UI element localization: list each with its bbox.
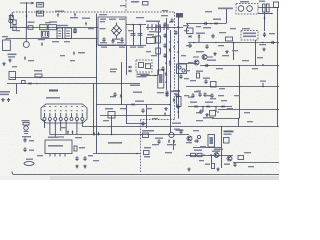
speckle t25: [190, 80, 196, 81]
text above right: [259, 1, 265, 2]
series res on wire: [35, 74, 42, 77]
channel dot h: [177, 51, 179, 53]
pin lead 5 down: [65, 121, 67, 135]
cap texts: [57, 25, 68, 26]
channel cap b: [163, 33, 166, 38]
text at 204,78: [203, 78, 210, 79]
speckle t40: [152, 144, 159, 145]
filter cap C805: [131, 34, 136, 36]
Q851 text mid: [214, 149, 223, 151]
channel res R804: [156, 26, 161, 32]
C815 cap: [204, 79, 207, 84]
secondary return wire y135: [90, 134, 189, 136]
frame cap text: [101, 47, 107, 48]
pin circle 5: [65, 118, 68, 121]
speckle t47: [2, 36, 8, 37]
out gnd b: [216, 168, 219, 171]
frame text c: [119, 19, 125, 20]
vertical x211 low: [211, 156, 213, 164]
pin circle 4: [59, 118, 62, 121]
frame text a2: [100, 21, 105, 22]
channel low cap b: [176, 93, 179, 98]
junction y86: [262, 86, 264, 88]
AC plug lead vertical: [5, 39, 7, 41]
speckle t67: [257, 57, 263, 58]
out wire y162: [233, 162, 279, 164]
corner box top right: [274, 2, 279, 8]
pin lead 1 down: [44, 121, 46, 129]
cap 113,95: [113, 92, 116, 97]
series cap on AC line: [40, 25, 48, 30]
row junction a: [203, 154, 205, 156]
speckle t39: [93, 160, 99, 161]
RC block right cap: [267, 4, 270, 12]
cap value text2: [138, 47, 144, 48]
cap C813: [165, 92, 168, 97]
sec text extra: [188, 97, 193, 98]
sec stub b: [215, 107, 217, 113]
sec row3 text: [196, 112, 202, 113]
pin circle 2: [48, 118, 51, 121]
filter cap C806 lead: [140, 25, 142, 46]
part text b: [155, 138, 163, 139]
bottom-left cap pair a: [23, 138, 26, 143]
stub x263: [262, 83, 264, 87]
speckle t38: [37, 155, 43, 156]
channel ext rail d low: [178, 64, 180, 119]
relay RY801 on wire: [9, 72, 16, 80]
C860 text: [108, 142, 122, 144]
D810 box: [108, 112, 115, 119]
paper noise: [0, 0, 279, 176]
speckle t54: [184, 30, 189, 31]
frame cap text2: [119, 47, 125, 48]
channel cap a: [163, 22, 166, 27]
frame cap a: [102, 37, 105, 42]
sub cluster gnd a: [75, 165, 78, 168]
switch channel rail c: [170, 30, 172, 90]
dashed boundary vertical at x126 up: [125, 0, 127, 12]
under Q text: [167, 144, 176, 145]
RC block right res: [263, 4, 266, 12]
res D852 b: [197, 153, 202, 156]
junction on return: [36, 83, 38, 85]
channel low diode: [173, 99, 175, 101]
fusible link box F801: [37, 3, 44, 8]
Q802 junction: [210, 23, 212, 25]
jumper text: [26, 159, 33, 160]
pin tick 5: [65, 113, 67, 117]
secondary stub y137: [55, 136, 64, 138]
jumper ellipse: [24, 162, 34, 166]
speckle t41: [165, 152, 172, 153]
AC neutral lead vertical: [10, 14, 12, 28]
degauss box text2: [243, 36, 256, 38]
y135 arrow b: [98, 132, 100, 136]
B+ line y127 to right: [82, 126, 279, 128]
speckle t31: [146, 108, 152, 109]
pin circle 6: [70, 118, 73, 121]
vertical x221 low: [221, 127, 223, 169]
IC851 text: [224, 131, 234, 133]
cap bank top wire: [126, 24, 146, 26]
diode on x121: [120, 95, 122, 97]
left long rail: [96, 40, 98, 154]
sec text r2: [190, 102, 197, 103]
diode row ticks: [148, 24, 168, 30]
speckle t14: [183, 25, 189, 26]
top right bus y23: [186, 23, 226, 25]
thermistor symbol: [74, 13, 76, 17]
pin tick 1: [44, 113, 46, 117]
series cap b on AC line: [41, 31, 49, 37]
switch channel rail a: [158, 22, 160, 75]
speckle t60: [162, 10, 168, 11]
filter cap C806: [138, 34, 143, 36]
F801 label blob: [38, 4, 43, 6]
channel mid dot f: [169, 64, 171, 66]
Q803 parts: [193, 56, 213, 58]
out text b: [224, 164, 230, 165]
varistor block: [13, 20, 16, 25]
R801 part: [74, 28, 76, 34]
speckle t23: [216, 68, 223, 69]
CN801 text: [0, 91, 10, 93]
junction d y42: [262, 42, 264, 44]
degauss box dashed: [241, 31, 258, 41]
sub board box: [45, 140, 72, 154]
speckle t28: [244, 112, 250, 113]
left drop from dashed: [11, 12, 13, 18]
degauss text: [82, 18, 90, 19]
channel tall rect low: [177, 97, 182, 107]
thermistor drop: [25, 28, 27, 42]
speckle t32: [152, 118, 158, 119]
speckle t20: [222, 55, 229, 56]
channel cap d: [163, 53, 166, 58]
pin circle 8: [81, 118, 84, 121]
part at 145,150 box: [144, 151, 150, 155]
X-capacitor C801: [57, 28, 63, 39]
snubber blob: [176, 13, 183, 18]
speckle t43: [200, 146, 206, 147]
frame text a: [100, 19, 106, 20]
R815 text: [130, 85, 140, 87]
heater cluster box: [23, 123, 29, 126]
right bus y42: [188, 42, 279, 44]
stub arrow: [32, 2, 35, 5]
text R817: [133, 92, 142, 93]
Q804 circle: [194, 60, 199, 65]
speckle t22: [252, 68, 258, 69]
bridge text: [112, 39, 120, 40]
X801 sub text: [46, 97, 60, 99]
Q852 text: [212, 151, 220, 152]
pin tick 6: [71, 113, 73, 117]
speckle t3: [64, 41, 70, 42]
speckle t18: [259, 44, 266, 45]
channel junction 3: [177, 41, 179, 43]
thermistor drop dot: [26, 27, 28, 29]
y135 junction a: [111, 134, 113, 136]
speckle t45: [248, 166, 254, 167]
B plus text: [171, 91, 180, 93]
junction c y42: [233, 42, 235, 44]
junction y86 x239: [239, 86, 241, 88]
thermistor text: [70, 17, 78, 18]
junction on y77: [39, 77, 41, 79]
out text a: [205, 164, 210, 165]
junction a y42: [193, 42, 195, 44]
speckle t65: [70, 60, 75, 61]
fuse F801 body: [28, 26, 33, 30]
speckle t16: [219, 32, 226, 33]
B plus wire: [179, 63, 196, 65]
box drop vertical: [187, 24, 189, 29]
channel low cap a: [165, 90, 168, 95]
channel ext rail c low: [170, 90, 172, 133]
sec extra diode: [189, 35, 191, 37]
page border bottom: [12, 172, 14, 175]
lower AC return y83: [7, 83, 140, 85]
dashed boundary vertical hot/cold: [174, 12, 176, 119]
speckle t56: [218, 45, 224, 46]
AC ground: [8, 59, 11, 62]
under Q arrow b: [173, 139, 175, 143]
pc out cap: [179, 74, 182, 79]
speckle t11: [161, 15, 168, 16]
out cap a: [233, 162, 236, 167]
part at 156,140: [157, 139, 160, 144]
vert x146 mid: [146, 105, 148, 129]
sec diode row wire y106: [188, 106, 232, 108]
speckle t17: [230, 28, 236, 29]
pin tick 3: [54, 113, 56, 117]
IC left rail: [126, 46, 128, 76]
heater text: [22, 120, 30, 121]
junction b y42: [215, 42, 217, 44]
IC feed diode b: [129, 70, 131, 72]
R820 text: [196, 71, 203, 72]
part text: [144, 147, 151, 148]
secondary rail x93.3: [93, 84, 95, 135]
circle small at 198,137: [197, 135, 200, 138]
pin lead 2 down: [49, 121, 51, 135]
channel dot i: [173, 57, 175, 59]
winding marks inside X801: [44, 106, 84, 108]
arrow at 165,112: [164, 112, 166, 116]
channel diode a: [169, 49, 171, 51]
AC100 text line2: [8, 56, 15, 57]
channel junction 4: [165, 62, 167, 64]
D809 diode: [132, 103, 134, 105]
speckle t9: [136, 17, 144, 18]
diode row text: [146, 21, 160, 23]
speckle t12: [151, 55, 157, 56]
rectifier frame: [98, 17, 126, 45]
AC line lower: [6, 38, 98, 40]
bridge D801 diamond: [112, 25, 122, 36]
text at 207,60: [207, 60, 216, 61]
part at 272,38: [270, 41, 275, 44]
photocoupler PC801 box: [177, 64, 187, 74]
gnd at 166,107: [164, 107, 167, 110]
startup res text: [147, 34, 154, 35]
filter cap C805 lead: [133, 25, 135, 46]
sub cluster text: [79, 147, 85, 148]
junction y118: [238, 118, 240, 120]
top edge marks text: [131, 1, 139, 3]
vertical x173 low: [173, 140, 175, 150]
D803 text: [213, 19, 221, 20]
C817 text: [203, 117, 214, 118]
sec junction row b: [215, 106, 217, 108]
speckle t42: [186, 142, 192, 143]
speckle t36: [60, 127, 66, 128]
cap at 143,110: [141, 108, 144, 113]
dashed boundary vertical lower: [140, 120, 142, 173]
sub texts right: [88, 155, 93, 156]
snubber cap: [170, 18, 173, 23]
cap at 211,37: [211, 34, 214, 39]
posistor symbol: [73, 51, 75, 55]
degauss box text1: [243, 33, 256, 35]
thermistor arrow: [41, 42, 43, 46]
junction circle Q at 171,134: [169, 132, 174, 137]
transformer X801 outline: [41, 104, 87, 123]
bottom-left cap texts b: [29, 150, 34, 151]
channel cap e: [174, 30, 177, 35]
label box right: [238, 156, 244, 160]
T801 winding b: [247, 6, 253, 12]
vert x121 mid: [121, 62, 123, 105]
speckle t37: [75, 137, 82, 138]
R801 body: [74, 29, 76, 33]
AC plug box: [3, 40, 11, 51]
switch channel rail b: [166, 18, 168, 90]
IC801 inner die: [139, 63, 144, 68]
pin lead 4 down: [60, 121, 62, 132]
bottom row wire y155: [186, 155, 233, 157]
D803 diode: [215, 22, 217, 24]
D815 text: [172, 123, 181, 124]
Q802 parts: [203, 22, 208, 25]
sub cluster gnd b: [83, 165, 86, 168]
X-capacitor C802: [65, 28, 72, 39]
lower mid bus y115: [100, 115, 171, 117]
degauss symbol: [57, 13, 59, 17]
IC801 inner label: [146, 64, 151, 69]
sec text D813: [205, 102, 213, 103]
speckle t34: [103, 120, 109, 121]
reg box: [208, 135, 215, 148]
junction y153: [136, 153, 138, 155]
wire y118 right: [212, 118, 239, 120]
Q text: [176, 130, 184, 131]
stub junction: [26, 2, 28, 4]
sec junction row a: [202, 106, 204, 108]
sec cluster ecap a: [198, 92, 201, 97]
sub cluster cap a: [75, 156, 78, 161]
xcap hatch b: [66, 31, 70, 36]
pin circle 7: [75, 118, 78, 121]
sec extra box: [187, 28, 194, 34]
cap bank bottom wire: [98, 45, 146, 47]
right bus y65: [200, 65, 279, 67]
line switch circle: [9, 19, 13, 23]
sub board inner text: [48, 145, 63, 147]
scan shadow strip bottom left lighter: [0, 176, 50, 180]
cluster text a: [193, 130, 199, 131]
speckle t48: [28, 60, 34, 61]
line filter LF801 box: [48, 25, 56, 30]
D805 diode: [198, 35, 200, 37]
channel diode b: [169, 61, 171, 63]
secondary bus y134: [50, 134, 90, 136]
Q852 parts a: [194, 139, 199, 142]
rc pair drop: [264, 12, 266, 31]
Q852 circle top: [187, 136, 192, 141]
row junction b: [210, 154, 212, 156]
small box on return: [22, 81, 26, 84]
wire stub top-left: [20, 3, 32, 27]
LF801 text: [49, 21, 57, 22]
T801 winding a: [238, 6, 244, 12]
channel mid dot d: [165, 34, 167, 36]
speckle t29: [184, 95, 189, 96]
text mid2: [110, 71, 116, 72]
D805 lead: [198, 38, 200, 43]
frame cap c: [120, 37, 123, 42]
IC under wire: [141, 75, 159, 77]
thermistor text: [38, 39, 45, 40]
D809 text: [135, 101, 144, 102]
channel dot l: [170, 85, 172, 87]
frame text d: [100, 28, 106, 29]
PS label box: [143, 133, 149, 138]
Q802 text: [203, 27, 211, 28]
AC 100V text: [8, 54, 17, 56]
speckle t27: [227, 108, 233, 109]
junction lower line: [10, 27, 12, 29]
part below text: [144, 156, 150, 157]
frame text b: [109, 19, 116, 20]
right tall vertical x277: [277, 8, 279, 127]
y135 drop x111: [111, 116, 113, 135]
vertical feed to bridge: [96, 14, 98, 49]
channel cluster diode: [165, 73, 167, 75]
cap bank junction b: [139, 24, 141, 26]
diode row line: [146, 27, 183, 29]
IC under wire dot: [154, 75, 156, 77]
T801 label: [240, 1, 249, 3]
under Q arrows: [168, 139, 170, 143]
cap bank junction a: [132, 24, 134, 26]
speckle t10: [149, 31, 155, 32]
speckle t26: [219, 88, 225, 89]
varistor block2: [13, 26, 16, 31]
cluster parts at 205,62: [204, 64, 209, 67]
photocoupler circles: [178, 66, 181, 69]
speckle t58: [232, 50, 238, 51]
top right wire y7: [258, 7, 279, 9]
degauss drop vertical: [255, 40, 257, 66]
IC feed diode a: [129, 66, 131, 68]
sec row3 junction b: [217, 111, 219, 113]
sec out wire y109: [218, 109, 279, 111]
speckle t55: [205, 11, 212, 12]
speckle t30: [157, 92, 164, 93]
